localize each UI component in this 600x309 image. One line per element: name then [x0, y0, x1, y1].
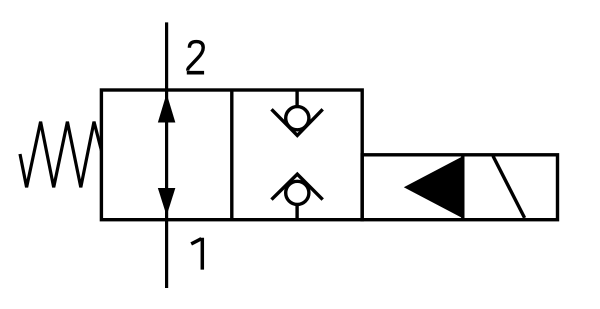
check valve CV1 ball	[286, 107, 309, 130]
port line 2 (vertical wire through valve, port 2 to port 1)	[165, 22, 168, 288]
envelope divider between positions	[230, 90, 233, 220]
valve body (two-position envelope)	[101, 90, 362, 220]
flow arrow up head	[158, 94, 176, 123]
port label 2	[188, 42, 204, 71]
check valve CV2 stub wire (bottom)	[295, 204, 298, 220]
spring (return spring, left)	[20, 122, 101, 188]
port label 1	[191, 238, 202, 270]
flow arrow down head	[158, 188, 176, 216]
check valve CV2 ball	[286, 181, 309, 204]
check valve CV1 seat	[272, 109, 323, 135]
solenoid arrow (filled triangle)	[404, 156, 463, 218]
solenoid actuator box	[362, 155, 557, 220]
check valve CV1 stub wire (top)	[295, 90, 298, 107]
solenoid slash	[493, 156, 525, 218]
solenoid divider	[461, 155, 464, 220]
check valve CV2 seat	[272, 174, 323, 199]
